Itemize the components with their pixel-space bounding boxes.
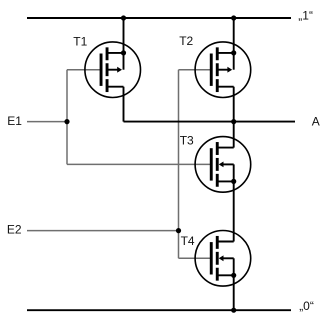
wire E1 to T1 gate: [67, 69, 100, 71]
label T4: [181, 234, 195, 248]
wire T1 source to A: [123, 87, 125, 122]
wire T1 drain to VDD: [123, 18, 125, 70]
label T2: [179, 34, 193, 48]
svg-text:T1: T1: [73, 35, 87, 49]
junction E2 node: [176, 228, 181, 233]
rail "0" (GND bottom rail): [27, 309, 291, 311]
wire E2 input: [27, 230, 179, 232]
wire T3 source to T4 drain: [233, 164, 235, 241]
label „1": [298, 8, 313, 22]
label E2: [7, 223, 22, 237]
junction node A chain: [231, 119, 236, 124]
junction T4 source rail: [231, 308, 236, 313]
wire E1 input: [27, 121, 67, 123]
wire E1 to T3 gate: [67, 163, 210, 165]
wire E2 vertical branch: [178, 70, 180, 259]
wire output A: [124, 121, 296, 123]
svg-text:T2: T2: [179, 34, 193, 48]
transistor T3 (NMOS): [195, 137, 251, 193]
label „0": [299, 299, 314, 313]
svg-text:„0“: „0“: [299, 299, 314, 313]
svg-text:T4: T4: [181, 234, 195, 248]
svg-text:E1: E1: [7, 114, 22, 128]
label E1: [7, 114, 22, 128]
junction T1 drain rail: [121, 15, 126, 20]
wire T4 source to GND: [233, 258, 235, 310]
wire E2 to T2 gate: [179, 69, 211, 71]
label A: [312, 114, 320, 128]
svg-text:E2: E2: [7, 223, 22, 237]
label T1: [73, 35, 87, 49]
junction E1 node: [64, 119, 69, 124]
transistor T2 (PMOS): [195, 42, 251, 98]
rail "1" (VDD top rail): [27, 17, 291, 19]
transistor T4 (NMOS): [195, 230, 251, 286]
transistor T1 (PMOS): [85, 42, 141, 98]
wire T2 drain to VDD: [233, 18, 235, 70]
label T3: [180, 134, 194, 148]
svg-text:A: A: [312, 114, 320, 128]
svg-text:T3: T3: [180, 134, 194, 148]
junction T2 drain rail: [231, 15, 236, 20]
wire E2 to T4 gate: [179, 257, 211, 259]
wire E1 vertical branch: [66, 70, 68, 165]
wire T2 source to node A: [233, 87, 235, 148]
svg-text:„1“: „1“: [298, 8, 313, 22]
